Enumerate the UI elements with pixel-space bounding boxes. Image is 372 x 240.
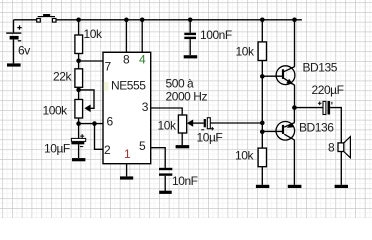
wire to BD136 base [262, 130, 282, 132]
svg-text:3: 3 [142, 100, 149, 114]
resistor R3 10k [258, 42, 266, 61]
speaker cone [344, 137, 351, 158]
wire 10k R3 column top [261, 20, 263, 42]
svg-text:6: 6 [107, 115, 114, 129]
capacitor C3 10uF plus plate [207, 118, 210, 129]
node base Q2 [260, 130, 265, 135]
svg-text:10µF: 10µF [44, 142, 70, 156]
svg-text:2000 Hz: 2000 Hz [166, 89, 208, 103]
ground (Q2 collector) [288, 185, 302, 188]
ground (P2) [176, 145, 190, 148]
switch S1 pushbutton [37, 14, 56, 22]
svg-text:500 à: 500 à [166, 76, 195, 90]
IC U1 NE555 [103, 52, 151, 163]
svg-text:8: 8 [123, 52, 130, 66]
wire pot wiper loop [79, 90, 94, 108]
wire P2 to ground [181, 133, 183, 145]
wire base node to BD135 base [262, 75, 282, 77]
wire P2 wiper to C3 [193, 122, 204, 124]
capacitor C3 10uF minus plate [204, 119, 206, 127]
svg-text:22k: 22k [53, 70, 72, 84]
svg-text:4: 4 [139, 52, 146, 66]
svg-text:10nF: 10nF [172, 174, 198, 188]
IC highlight [104, 82, 109, 91]
potentiometer P1 100k [75, 100, 83, 119]
svg-text:10µF: 10µF [197, 131, 223, 145]
node C [76, 121, 81, 126]
wire C5 to speaker column [330, 108, 341, 143]
svg-text:NE555: NE555 [111, 79, 146, 93]
wire C2 to ground [164, 176, 166, 191]
capacitor C1 10uF plus plate [71, 138, 85, 141]
junction node dots [76, 18, 297, 135]
ground (pin 1) [120, 176, 133, 179]
svg-text:10k: 10k [235, 149, 254, 163]
C5 plus sign [318, 102, 322, 106]
C5 minus sign [331, 102, 333, 105]
ground (C4) [184, 55, 198, 58]
wire 10k R1 column [78, 20, 80, 35]
svg-text:5: 5 [139, 139, 146, 153]
wire C1 to ground [78, 144, 80, 158]
wire speaker to ground [340, 152, 342, 185]
C1 plus sign [80, 134, 84, 138]
wire C3 to bases column [210, 122, 262, 124]
resistor R1 10k [75, 35, 83, 54]
IC pin labels [104, 52, 149, 161]
node emitters/C5 [292, 105, 297, 110]
capacitor C5 220uF minus plate [327, 101, 330, 115]
svg-text:10k: 10k [84, 27, 103, 41]
ground (C1) [72, 158, 85, 161]
svg-text:220µF: 220µF [312, 83, 344, 97]
battery minus sign [18, 40, 21, 42]
wire pin 5 [151, 148, 166, 168]
node rail/R3 [260, 18, 265, 23]
svg-text:100nF: 100nF [200, 28, 232, 42]
battery plus sign [17, 25, 21, 29]
capacitor C2 10nF [159, 168, 172, 170]
svg-text:8: 8 [328, 141, 335, 155]
resistor R4 10k [258, 148, 266, 167]
wire top rail left (battery to switch) [14, 19, 37, 21]
speaker LS1 box [338, 143, 344, 152]
svg-text:6v: 6v [18, 44, 30, 58]
wire 100nF junction down [189, 20, 191, 33]
wire pin 1 [126, 164, 128, 177]
wire bases column to R4 [261, 132, 263, 148]
node rail/R1 [76, 18, 81, 23]
wire C4 to ground [189, 39, 191, 55]
wire node C to cap [78, 124, 80, 139]
potentiometer P2 10k [178, 115, 186, 133]
svg-text:1: 1 [124, 147, 131, 161]
C3 plus sign [211, 127, 214, 130]
P2 wiper arrow [187, 120, 193, 127]
ground (speaker) [335, 185, 348, 188]
node rail/Q1 collector [292, 18, 297, 23]
node rail/pin4 [140, 18, 145, 23]
svg-text:BD136: BD136 [299, 121, 334, 135]
node B [76, 88, 81, 93]
wire R1 to node A [78, 54, 80, 61]
svg-text:10k: 10k [158, 119, 177, 133]
capacitor C5 220uF plus plate [323, 101, 326, 114]
node C3/bases [260, 121, 265, 126]
wire emitter junction to C5 [294, 107, 323, 109]
wire R3 to base node [261, 61, 263, 77]
resistor R2 22k [75, 69, 83, 88]
capacitor C1 10uF minus plate [71, 142, 84, 145]
node A [76, 59, 81, 64]
wire pin2 L [95, 124, 104, 150]
C3 minus sign [201, 129, 204, 131]
battery V1 6v [6, 20, 21, 64]
ground (battery) [7, 63, 21, 66]
wire top rail (switch to right end) [56, 19, 302, 21]
transistor Q2 BD136 [276, 108, 295, 185]
wire R4 to ground [261, 167, 263, 185]
wire node A down [78, 61, 80, 69]
ground (C2) [159, 191, 172, 194]
wire pin 4 [141, 20, 143, 53]
capacitor C4 100nF [184, 33, 196, 35]
node rail/pin8 [124, 18, 129, 23]
C1 minus sign [80, 146, 83, 148]
svg-text:10k: 10k [236, 45, 255, 59]
svg-text:7: 7 [105, 59, 112, 73]
wire bases column [261, 76, 263, 131]
svg-text:BD135: BD135 [303, 61, 338, 75]
svg-text:100k: 100k [43, 104, 69, 118]
svg-text:2: 2 [104, 143, 111, 157]
node base Q1 [260, 74, 265, 79]
node rail/C4 [188, 18, 193, 23]
wire pin 8 [125, 20, 127, 53]
transistor Q1 BD135 [276, 20, 295, 108]
node C/pin2 [92, 121, 97, 126]
wire pin 3 [151, 108, 183, 115]
wire node C row to pin 6 [79, 118, 103, 124]
ground (R4) [256, 185, 269, 188]
wire node A to pin 7 [79, 60, 103, 62]
pot wiper arrow [84, 105, 90, 113]
wire R2 to node B [78, 87, 80, 99]
